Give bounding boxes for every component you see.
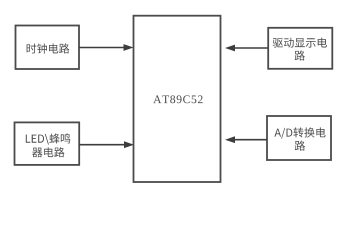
wire: A/D converter circuit to MCU (arrow left) bbox=[225, 136, 267, 143]
wire: display driver circuit to MCU (arrow left) bbox=[225, 45, 268, 52]
block: clock circuit 时钟电路 (top-left) bbox=[16, 26, 80, 70]
block: display driver circuit 驱动显示电路 (top-right) bbox=[268, 28, 332, 69]
wire: clock circuit to MCU (arrow right) bbox=[79, 44, 134, 51]
block: A/D converter circuit A/D转换电路 (bottom-right) bbox=[267, 116, 331, 160]
block: LED/buzzer circuit LED\蜂鸣器电路 (bottom-left) bbox=[15, 122, 80, 164]
block U1 AT89C52 (MCU, center) bbox=[134, 16, 221, 182]
wire: LED/buzzer circuit to MCU (arrow right) bbox=[79, 141, 134, 148]
